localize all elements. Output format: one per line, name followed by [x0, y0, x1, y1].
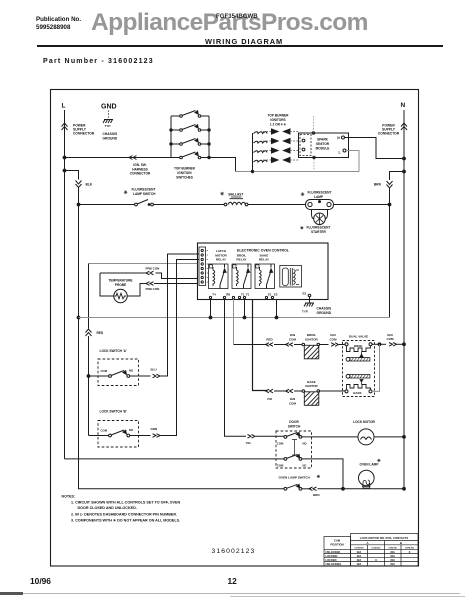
wire bake row seg3 — [294, 390, 302, 392]
label bake relay — [259, 253, 270, 261]
connector BRN lamp (chevron) — [309, 487, 320, 497]
label latch motor relay — [215, 249, 227, 262]
module dashed stub top — [313, 116, 315, 132]
svg-text:STARTER: STARTER — [311, 230, 327, 234]
svg-text:COM: COM — [330, 337, 338, 341]
EOC terminal T1 — [223, 293, 230, 299]
bake valve coil — [345, 380, 372, 395]
wire BLK branch — [65, 171, 79, 180]
svg-text:NO: NO — [129, 428, 134, 432]
junction BLK / neutral run — [77, 316, 80, 319]
wire bake row seg2 — [274, 390, 288, 392]
junction door NC riser / lamp row — [342, 487, 345, 490]
wire broil row seg2 — [274, 344, 288, 346]
connector IGN COM right (chevron) — [330, 333, 339, 346]
svg-text:IGNITION: IGNITION — [177, 171, 192, 175]
ignitor 3 coil and spark gap — [254, 148, 300, 153]
connector RED broil (chevron) — [266, 337, 274, 346]
connector BLU (chevron) — [151, 367, 161, 378]
svg-text:✳: ✳ — [377, 458, 382, 463]
svg-text:✳: ✳ — [220, 192, 225, 198]
svg-text:UNLOCKING: UNLOCKING — [326, 562, 342, 566]
svg-text:A: A — [366, 541, 368, 545]
wire valve to N bus — [372, 343, 386, 345]
EOC terminal E1 — [265, 293, 272, 299]
power supply connector arrow (L) — [62, 123, 95, 136]
title underline — [37, 45, 443, 47]
svg-text:X: X — [375, 558, 377, 562]
svg-text:OVEN LAMP SWITCH: OVEN LAMP SWITCH — [279, 475, 311, 479]
svg-text:UNLOCKED: UNLOCKED — [326, 550, 341, 554]
wire lock B riser — [160, 260, 199, 436]
svg-text:F4: F4 — [226, 293, 230, 297]
svg-text:RELAY: RELAY — [259, 258, 270, 262]
bake ignitor — [302, 380, 320, 406]
lock motor contacts table — [324, 534, 418, 567]
ignitor 2 coil and spark gap — [254, 139, 300, 144]
power supply connector arrow (N) — [378, 123, 407, 136]
node GND — [101, 104, 117, 119]
chassis ground symbol (GND) — [103, 120, 118, 141]
svg-text:N/A: N/A — [390, 554, 395, 558]
oven lamp switch — [279, 474, 322, 490]
connector ORN (chevron) — [151, 427, 161, 438]
svg-text:BRN: BRN — [374, 183, 382, 187]
svg-text:BRN: BRN — [313, 493, 320, 497]
node N — [401, 102, 406, 109]
svg-text:OVEN LAMP: OVEN LAMP — [360, 463, 380, 467]
EOC edge connector strip — [199, 247, 208, 286]
watermark AppliancePartsPros.com — [91, 9, 368, 37]
svg-text:LAMP SWITCH: LAMP SWITCH — [133, 192, 156, 196]
wire BRN branch from N bus — [390, 172, 405, 181]
broil row wire — [234, 344, 268, 346]
label lock switch B — [100, 409, 127, 413]
svg-text:NO: NO — [303, 441, 308, 445]
svg-text:✳: ✳ — [301, 192, 306, 198]
svg-text:CHASSIS: CHASSIS — [317, 307, 332, 311]
top burner ignitor coil rail — [251, 133, 253, 173]
door switch assembly — [65, 431, 359, 489]
svg-text:NO: NO — [129, 369, 134, 373]
wire module N to N bus — [345, 138, 405, 159]
svg-text:✳: ✳ — [317, 474, 322, 479]
svg-text:GND: GND — [101, 104, 117, 111]
wire BRN continues to neutral run — [389, 188, 391, 318]
diagram border frame — [51, 90, 419, 567]
footer date — [30, 576, 51, 586]
wire module L to L net — [346, 151, 359, 172]
svg-text:BLK: BLK — [86, 183, 93, 187]
label top burner ignition switches — [174, 167, 196, 180]
svg-text:N: N — [337, 136, 340, 140]
ballast — [220, 192, 248, 206]
connector PRB CON lower — [146, 282, 160, 291]
svg-text:TEMPERATURE: TEMPERATURE — [108, 278, 132, 282]
svg-text:N/A: N/A — [357, 562, 362, 566]
connector IGN COM bake (chevron) — [286, 389, 297, 405]
svg-text:N/A: N/A — [357, 550, 362, 554]
svg-text:N/A: N/A — [357, 554, 362, 558]
publication number block — [36, 16, 81, 32]
wire E2 drop to neutral run — [275, 300, 278, 319]
ignition switch 3 — [171, 139, 209, 146]
broil valve coil — [345, 343, 372, 357]
wire main L feed — [65, 157, 172, 159]
wire L net horizontal (gray) — [236, 171, 360, 173]
svg-text:NOTES:: NOTES: — [62, 495, 76, 499]
wire lamp row from BLK — [79, 488, 285, 489]
svg-text:BALLAST: BALLAST — [229, 193, 244, 197]
broil ignitor — [302, 333, 320, 359]
svg-text:BLU: BLU — [151, 367, 157, 371]
svg-text:1 2 OR 4 ✳: 1 2 OR 4 ✳ — [270, 123, 287, 127]
wire broil row seg4 — [320, 344, 329, 346]
svg-text:T1: T1 — [241, 293, 245, 297]
wire ballast to fluorescent lamp — [248, 204, 306, 206]
svg-text:FLUORESCENT: FLUORESCENT — [132, 188, 156, 192]
svg-text:TYP.: TYP. — [105, 124, 111, 128]
wire valve chevron to N bus — [397, 343, 406, 346]
svg-text:BAKE: BAKE — [353, 391, 361, 395]
junction L bus / BLK branch — [63, 169, 66, 172]
wire RED riser to lock switches — [88, 336, 90, 436]
svg-text:TOP BURNER: TOP BURNER — [268, 114, 290, 118]
svg-text:POSITION: POSITION — [330, 543, 343, 547]
junction BLK / lamp switch wire — [77, 203, 80, 206]
label door switch — [288, 420, 301, 429]
svg-text:COM-NO: COM-NO — [354, 547, 363, 549]
wire F4 drop to broil row (gray) — [233, 299, 235, 345]
ignition switch 1 — [171, 111, 209, 118]
svg-text:VIO: VIO — [267, 397, 273, 401]
bake valve bimetal — [346, 374, 370, 378]
svg-text:CONNECTOR: CONNECTOR — [378, 132, 400, 136]
EOC terminal F1 — [243, 293, 249, 299]
svg-text:IGNITORS: IGNITORS — [270, 118, 285, 122]
svg-text:NC: NC — [303, 463, 307, 467]
svg-text:LOCK SWITCH 'B': LOCK SWITCH 'B' — [100, 409, 127, 413]
svg-text:IGNITOR: IGNITOR — [316, 142, 330, 146]
notes block — [62, 495, 181, 523]
svg-text:E2: E2 — [274, 293, 278, 297]
svg-text:DOOR: DOOR — [289, 420, 299, 424]
WIRING DIAGRAM title — [205, 37, 283, 46]
svg-text:F1: F1 — [246, 293, 250, 297]
wire switches to module L net — [209, 158, 236, 172]
svg-text:✳: ✳ — [300, 226, 305, 231]
svg-text:RED: RED — [97, 331, 104, 335]
junction N bus / BRN branch — [403, 170, 406, 173]
connector VIO bake (chevron) — [266, 389, 274, 401]
EOC terminal F4 — [226, 293, 234, 299]
lock switch B — [89, 421, 151, 448]
fluorescent lamp switch — [79, 188, 157, 206]
ignition switch 2 — [171, 125, 209, 132]
connector YEL (chevron) — [246, 435, 256, 446]
wire F1 drop — [243, 299, 246, 319]
svg-text:CHASSIS: CHASSIS — [103, 132, 118, 136]
svg-text:E3: E3 — [303, 292, 307, 296]
connector BRN (down chevron) — [374, 181, 393, 188]
temperature probe circuit wires — [100, 273, 198, 296]
relay K2 broil — [232, 264, 251, 289]
svg-text:LOCK MOTOR SW. POS. CONTACTS: LOCK MOTOR SW. POS. CONTACTS — [360, 536, 409, 540]
svg-text:GROUND: GROUND — [317, 311, 332, 315]
svg-text:FLUORESCENT: FLUORESCENT — [308, 191, 332, 195]
connector PRB CON upper — [146, 266, 160, 275]
svg-text:N/A: N/A — [357, 558, 362, 562]
svg-text:COM-NC: COM-NC — [388, 547, 397, 549]
svg-text:SPARK: SPARK — [317, 138, 329, 142]
footer page number — [228, 576, 237, 586]
svg-text:IGNITOR: IGNITOR — [305, 384, 318, 388]
temperature probe RT1 — [108, 278, 132, 302]
svg-text:LAMP: LAMP — [314, 195, 324, 199]
svg-text:PRB CON: PRB CON — [146, 266, 160, 270]
wire broil row seg5 — [339, 344, 346, 346]
svg-text:CONNECTOR: CONNECTOR — [73, 132, 95, 136]
svg-text:SWITCHES: SWITCHES — [176, 176, 193, 180]
svg-text:LOCK SWITCH 'A': LOCK SWITCH 'A' — [100, 349, 127, 353]
wire RED riser vertical — [88, 264, 90, 329]
svg-text:RED: RED — [266, 337, 273, 341]
ignitor 1 coil and spark gap — [254, 129, 300, 134]
relay K3 bake — [255, 264, 275, 289]
spark ignitor module U1 — [299, 132, 349, 159]
wire lock A riser — [160, 254, 199, 376]
dual valve assembly — [343, 334, 375, 396]
wire gray EOC feed from RED riser — [89, 263, 198, 265]
svg-text:L: L — [62, 103, 66, 110]
diagram part number — [212, 548, 256, 555]
transformer T1 — [280, 266, 302, 288]
svg-text:N/A: N/A — [390, 562, 395, 566]
lock motor M1 — [353, 420, 405, 445]
EOC terminal T1b — [238, 293, 244, 299]
wire lamp row to N bus — [318, 488, 405, 490]
junction lamp row / N bus — [403, 487, 406, 490]
junction L bus / main wire — [63, 156, 66, 159]
svg-text:COM: COM — [289, 401, 297, 405]
junction BRN / lamp wire — [388, 203, 391, 206]
connector BLK (down chevron) — [76, 181, 93, 188]
ignition switch 4 — [171, 152, 209, 159]
oven lamp — [359, 458, 383, 489]
svg-text:✳: ✳ — [124, 190, 129, 196]
bottom scan artifact lines — [20, 593, 460, 594]
svg-text:COM: COM — [101, 429, 108, 433]
svg-text:COM: COM — [387, 337, 395, 341]
svg-text:COM-NO: COM-NO — [405, 547, 414, 549]
EOC terminal T4 — [209, 293, 216, 299]
bake row wire seg1 — [267, 390, 270, 392]
fluorescent starter — [300, 210, 330, 235]
svg-text:COM: COM — [289, 337, 297, 341]
svg-text:COM: COM — [101, 369, 108, 373]
lock switch A — [87, 359, 150, 386]
svg-text:LOCKING: LOCKING — [326, 554, 338, 558]
relay K1 latch motor — [209, 264, 229, 289]
wire neutral run horizontal (gray) — [79, 317, 390, 319]
wire fluorescent lamp to BRN junction — [334, 204, 390, 206]
svg-text:E1: E1 — [268, 293, 272, 297]
svg-text:B: B — [400, 541, 402, 545]
svg-text:DUAL VALVE: DUAL VALVE — [349, 334, 368, 338]
junction N bus / module N — [403, 157, 406, 160]
svg-text:CONNECTOR: CONNECTOR — [130, 172, 151, 176]
svg-text:TOP BURNER: TOP BURNER — [174, 167, 196, 171]
svg-text:YEL: YEL — [246, 441, 252, 445]
label top burner ignitors — [268, 114, 290, 127]
svg-text:L: L — [338, 151, 340, 155]
svg-text:MODULE: MODULE — [316, 147, 330, 151]
EOC terminal E3 — [303, 292, 311, 297]
ignitor 4 coil and spark gap — [254, 158, 300, 163]
svg-text:IGNITOR: IGNITOR — [305, 337, 318, 341]
svg-text:N: N — [401, 102, 406, 109]
wire bake valve return riser (gray) — [372, 343, 381, 392]
model number overlapping watermark — [216, 13, 258, 20]
chassis ground symbol (E3) — [302, 303, 332, 315]
top burner ignition switches rails — [170, 116, 210, 159]
wire T1 drop to door switch — [225, 299, 247, 437]
wire bake feed drop — [253, 300, 268, 391]
label broil relay — [236, 253, 247, 261]
svg-text:ELECTRONIC OVEN CONTROL: ELECTRONIC OVEN CONTROL — [237, 249, 290, 253]
svg-text:RELAY: RELAY — [236, 258, 247, 262]
svg-text:1. CIRCUIT SHOWN WITH ALL CON: 1. CIRCUIT SHOWN WITH ALL CONTROLS SET T… — [71, 501, 180, 505]
broil valve bimetal — [346, 357, 370, 361]
wire broil row seg3 — [294, 344, 302, 346]
electronic oven control box — [198, 243, 329, 300]
svg-text:ORN: ORN — [151, 427, 158, 431]
EOC terminal E2 — [271, 293, 278, 299]
svg-text:PROBE: PROBE — [115, 283, 126, 287]
svg-text:TYP.: TYP. — [302, 310, 308, 314]
svg-text:LOCKED: LOCKED — [326, 558, 337, 562]
node L — [62, 103, 66, 110]
connector ign sw harness (double chevron) — [129, 156, 151, 176]
wire bake row seg4 to valve — [320, 390, 345, 392]
connector BRN valve (chevron) — [387, 333, 397, 346]
svg-text:FLUORESCENT: FLUORESCENT — [307, 226, 331, 230]
module dashed stub bottom — [313, 159, 315, 172]
connector RED (up chevron) — [86, 329, 104, 336]
label lock switch A — [100, 349, 127, 353]
svg-text:RELAY: RELAY — [216, 258, 227, 262]
wire BLK vertical run — [78, 188, 80, 488]
fluorescent lamp — [301, 191, 334, 210]
svg-text:T4: T4 — [212, 293, 216, 297]
svg-text:PRB CON: PRB CON — [146, 287, 160, 291]
svg-text:GROUND: GROUND — [103, 137, 118, 141]
part number line — [43, 58, 154, 65]
svg-text:SWITCH: SWITCH — [288, 425, 301, 429]
svg-text:N/A: N/A — [390, 550, 395, 554]
N bus vertical — [403, 110, 405, 489]
svg-text:COM: COM — [277, 463, 284, 467]
svg-text:COM-NC: COM-NC — [372, 547, 381, 549]
connector IGN COM broil (chevron) — [286, 333, 297, 346]
svg-text:3. COMPONENTS WITH ✳ DO NOT A: 3. COMPONENTS WITH ✳ DO NOT APPEAR ON AL… — [71, 518, 180, 522]
svg-text:N/A: N/A — [390, 558, 395, 562]
wire lamp switch to ballast — [153, 204, 224, 206]
svg-text:X: X — [409, 550, 411, 554]
wire L bus vertical — [64, 110, 66, 459]
svg-text:COM: COM — [277, 441, 284, 445]
svg-text:DOOR CLOSED AND UNLOCKED.: DOOR CLOSED AND UNLOCKED. — [78, 506, 137, 510]
svg-text:2. 60 ▷ DENOTES DASHBOARD CON: 2. 60 ▷ DENOTES DASHBOARD CONNECTOR PIN … — [71, 512, 177, 516]
wire E3 to chassis ground — [309, 297, 311, 303]
svg-text:LOCK MOTOR: LOCK MOTOR — [353, 420, 375, 424]
wire T4 drop — [209, 299, 212, 319]
